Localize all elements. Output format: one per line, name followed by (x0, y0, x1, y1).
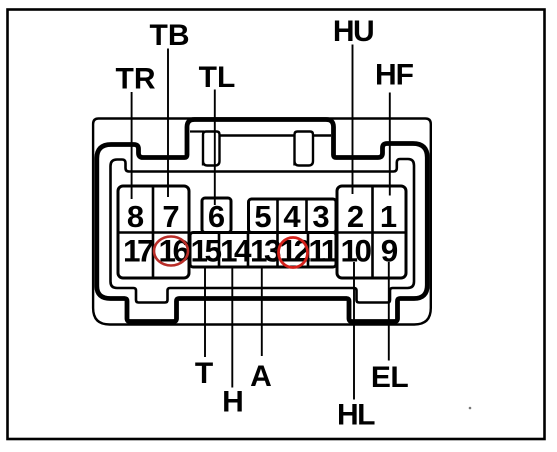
divider 5|4 (276, 199, 279, 233)
leader TB to pin 7 (167, 49, 169, 198)
connector inner contour (111, 159, 415, 303)
leader pin 15 to T (204, 266, 206, 357)
svg-text:T: T (195, 357, 213, 390)
divider 15|14 (218, 233, 221, 268)
svg-text:EL: EL (371, 361, 409, 394)
svg-text:TL: TL (199, 61, 236, 94)
svg-text:3: 3 (312, 199, 329, 234)
pin group box 2-1-10-9 (337, 186, 406, 278)
svg-text:HF: HF (375, 59, 414, 92)
svg-text:17: 17 (123, 233, 154, 269)
svg-text:15: 15 (190, 233, 221, 269)
svg-text:1: 1 (380, 199, 397, 234)
svg-text:TB: TB (150, 19, 190, 52)
divider 13|12 (276, 233, 279, 268)
svg-text:14: 14 (220, 233, 252, 269)
svg-text:H: H (222, 386, 244, 419)
svg-text:6: 6 (208, 199, 225, 234)
svg-text:HU: HU (333, 15, 373, 48)
svg-text:8: 8 (127, 199, 144, 234)
leader TL to pin 6 (214, 90, 216, 206)
divider 14|13 (247, 233, 250, 268)
divider 2|1 and 10|9 (371, 186, 374, 278)
divider 8|7 and 17|16 (152, 186, 155, 278)
red circle pin 12 (279, 238, 308, 268)
pin box 6 (202, 198, 231, 233)
pin group box 15-14-13-12-11 (190, 233, 336, 268)
top ledge stub left of slot (190, 130, 204, 132)
leader pin 9 to EL (388, 262, 390, 361)
leader HU to pin 2 (352, 45, 354, 195)
connector thick housing contour (97, 120, 428, 322)
svg-text:A: A (250, 360, 272, 393)
divider 4|3 (305, 199, 308, 233)
leader HF to pin 1 (389, 93, 391, 196)
leader pin 14 to H (231, 266, 233, 388)
svg-text:11: 11 (308, 233, 337, 269)
svg-text:5: 5 (254, 199, 271, 234)
leader pin 13 to A (261, 267, 263, 356)
leader pin 10 to HL (353, 262, 355, 400)
divider 12|11 (307, 233, 310, 268)
top key slot left (203, 132, 220, 166)
scan speck (469, 407, 472, 410)
top inner ledge line (220, 134, 331, 136)
svg-text:TR: TR (116, 63, 156, 96)
svg-text:2: 2 (347, 199, 364, 234)
svg-text:HL: HL (337, 399, 375, 432)
svg-text:4: 4 (283, 199, 301, 234)
svg-text:13: 13 (250, 233, 281, 269)
row divider right group (337, 231, 406, 234)
leader TR to pin 8 (131, 92, 133, 199)
row divider left group (118, 231, 189, 234)
red circle pin 16 (154, 237, 188, 266)
connector outer contour (93, 119, 431, 325)
pin group box 8-7-17-16 (118, 186, 189, 278)
pin group box 5-4-3 (249, 199, 337, 233)
svg-text:10: 10 (340, 233, 371, 269)
svg-text:7: 7 (162, 199, 179, 234)
top key slot right (295, 132, 314, 166)
